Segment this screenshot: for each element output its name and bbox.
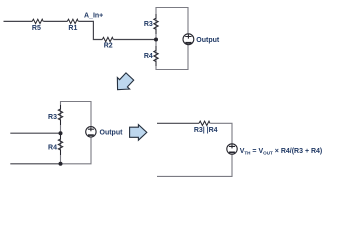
- junction node upper (bottom-left): [59, 131, 63, 135]
- box outline (bottom-left): [61, 102, 92, 164]
- source U3 VTH (bottom-right): [227, 144, 237, 154]
- svg-text:R2: R2: [104, 42, 113, 49]
- top box outline: [156, 8, 188, 70]
- svg-text:R4: R4: [144, 53, 153, 60]
- resistor R2: [102, 37, 113, 49]
- wire left lead lower: [10, 163, 60, 165]
- wire resistor to corner, right side, bottom: [157, 123, 232, 176]
- resistor R4 (top circuit): [144, 46, 158, 66]
- wire top lead: [157, 122, 199, 124]
- svg-text:VTH = VOUT × R4/(R3 + R4): VTH = VOUT × R4/(R3 + R4): [240, 148, 323, 156]
- wire left lead upper: [10, 132, 60, 134]
- svg-text:R4: R4: [48, 144, 57, 151]
- resistor R3||R4: [194, 121, 218, 134]
- wire input lead: [4, 20, 33, 22]
- resistor R5: [32, 19, 43, 32]
- wire between R5 and R1: [43, 20, 67, 22]
- arrow right: [130, 125, 147, 141]
- resistor R3 (bottom-left): [48, 105, 63, 125]
- svg-text:R1: R1: [68, 25, 77, 32]
- wire R2 to junction: [114, 39, 157, 41]
- arrow down-left: [111, 71, 136, 96]
- svg-text:Output: Output: [196, 37, 220, 44]
- svg-text:Output: Output: [100, 130, 124, 137]
- svg-text:R3| |R4: R3| |R4: [194, 127, 218, 134]
- svg-text:R3: R3: [144, 21, 153, 28]
- svg-text:R3: R3: [48, 114, 57, 121]
- resistor R4 (bottom-left): [48, 135, 63, 155]
- source U2 Output (bottom-left): [86, 127, 123, 137]
- svg-text:A_In+: A_In+: [84, 12, 103, 19]
- resistor R3 (top circuit): [144, 14, 158, 34]
- resistor R1: [67, 19, 78, 32]
- junction node lower (bottom-left): [59, 162, 63, 166]
- wire R1 to corner and down: [79, 21, 103, 39]
- source U1 Output (top circuit): [183, 34, 220, 45]
- junction node (top circuit): [154, 38, 158, 42]
- svg-text:R5: R5: [32, 25, 41, 32]
